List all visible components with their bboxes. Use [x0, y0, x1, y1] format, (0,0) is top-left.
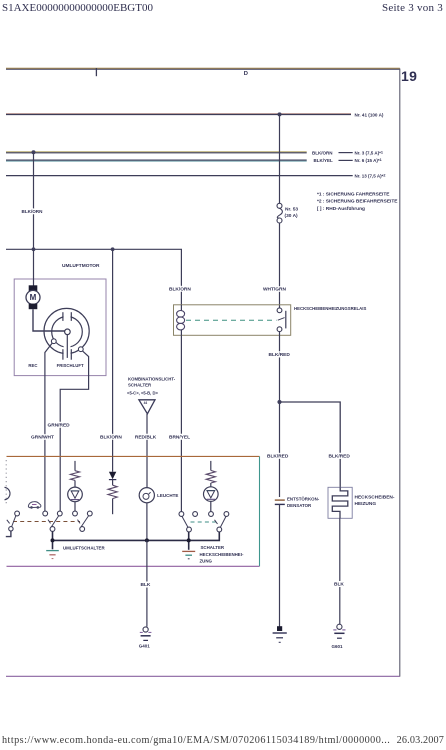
bus wire battery Nr.41: [6, 114, 351, 115]
ground capacitor bolt: [273, 626, 287, 642]
svg-text:BLK: BLK: [334, 581, 344, 587]
svg-text:(30 A): (30 A): [285, 213, 299, 219]
svg-text:BLK/RED: BLK/RED: [329, 453, 351, 459]
svg-text:BLK/RED: BLK/RED: [267, 453, 289, 459]
svg-text:UMLUFTMOTOR: UMLUFTMOTOR: [62, 263, 100, 269]
enclosure relay box: [174, 305, 291, 336]
frame right border: [399, 69, 401, 677]
junction BLK/RED branch: [277, 400, 281, 404]
LED indicator REC: [68, 487, 83, 511]
svg-text:HECKSCHEIBENHEI-: HECKSCHEIBENHEI-: [200, 552, 244, 557]
svg-text:DENSATOR: DENSATOR: [287, 503, 312, 508]
svg-text:KOMBINATIONSLICHT-: KOMBINATIONSLICHT-: [128, 377, 176, 382]
frame top border: [6, 68, 400, 69]
svg-text:HECKSCHEIBENHEIZUNGSRELAIS: HECKSCHEIBENHEIZUNGSRELAIS: [294, 306, 366, 311]
rotary damper selector: [44, 308, 89, 359]
relay contact armature: [277, 308, 286, 332]
capacitor ENTSTOERKONDENSATOR: [275, 500, 285, 504]
enclosure UMLUFTMOTOR box: [14, 279, 106, 376]
svg-text:HECKSCHEIBEN-: HECKSCHEIBEN-: [355, 495, 395, 501]
svg-text:<5-C>, <5-B, D>: <5-C>, <5-B, D>: [127, 391, 159, 396]
svg-text:*2 : SICHERUNG BEIFAHRERSEITE: *2 : SICHERUNG BEIFAHRERSEITE: [317, 199, 398, 205]
wire BLK/ORN bus2 down to feeder: [33, 152, 35, 249]
junction link bus lamp: [145, 538, 149, 542]
lamp partial at left border: [5, 487, 11, 500]
svg-text:19: 19: [401, 68, 417, 84]
svg-text:RED/BLK: RED/BLK: [135, 434, 157, 440]
svg-text:ZUNG: ZUNG: [200, 558, 213, 563]
svg-text:SCHALTER: SCHALTER: [201, 545, 225, 550]
wire BLK/RED branch to heater: [280, 402, 341, 487]
svg-text:ENTSTÖRKON-: ENTSTÖRKON-: [287, 496, 320, 501]
wire GRN/WHT motor to switch: [45, 343, 52, 511]
svg-text:*1 : SICHERUNG FAHRERSEITE: *1 : SICHERUNG FAHRERSEITE: [317, 192, 390, 198]
wire bus to motor M: [33, 249, 35, 285]
grid tick: [95, 68, 97, 76]
junction bus2 to motor feed: [32, 150, 36, 154]
frame bottom border: [6, 675, 400, 677]
svg-text:Nr. 41 (100 A): Nr. 41 (100 A): [355, 112, 384, 117]
resistor diode branch: [108, 485, 117, 514]
wire motor to damper hub: [33, 309, 65, 331]
svg-text:Nr. 13 (7,5 A)*2: Nr. 13 (7,5 A)*2: [355, 173, 386, 178]
svg-text:GRN/WHT: GRN/WHT: [31, 434, 54, 440]
fuse Nr.53: [277, 203, 282, 223]
junction feeder to motor: [32, 247, 36, 251]
wire switch link bus: [53, 531, 220, 549]
wire RED/BLK connector to lamp: [146, 414, 148, 488]
svg-text:HEIZUNG: HEIZUNG: [355, 501, 377, 507]
switch heater levers: [182, 516, 226, 527]
label KOMBINATIONSLICHTSCHALTER: [127, 377, 176, 396]
header document code: [2, 2, 153, 14]
svg-text:D: D: [244, 71, 248, 77]
svg-text:LEUCHTE: LEUCHTE: [157, 493, 178, 498]
bulb LEUCHTE: [139, 488, 154, 539]
junction link bus left: [51, 538, 55, 542]
svg-text:G601: G601: [332, 644, 344, 649]
linkage dashes UMLUFT: [13, 520, 80, 524]
diode branch: [109, 456, 116, 485]
svg-text:SCHALTER: SCHALTER: [128, 382, 152, 387]
LED indicator heater: [204, 487, 219, 512]
connector triangle to diagram 5: [139, 400, 155, 414]
heater element HECKSCHEIBENHEIZUNG: [332, 487, 348, 518]
ground G401: [140, 627, 152, 641]
junction feeder to diode branch: [111, 247, 115, 251]
bus wire Nr.13: [6, 175, 353, 177]
switch UMLUFT contacts: [43, 511, 92, 531]
bus wire BLK/ORN horizontal feeder: [6, 249, 181, 304]
chassis ground heater switch: [182, 551, 195, 558]
label SCHALTER HECKSCHEIBENHEIZUNG: [200, 545, 244, 563]
header page count: [382, 2, 443, 14]
enclosure heater grid box: [328, 487, 352, 518]
linkage dashes heater switch: [191, 520, 218, 524]
enclosure switch assembly box: [6, 456, 259, 566]
svg-text:REC: REC: [28, 363, 37, 368]
svg-text:BLK/ORN: BLK/ORN: [169, 287, 191, 293]
svg-text:M: M: [30, 293, 37, 302]
car icon: [28, 502, 41, 509]
svg-text:44: 44: [144, 401, 148, 405]
resistor LED1 feed: [70, 461, 79, 487]
bus wire BLK/YEL Nr.6: [6, 160, 307, 161]
footer URL: [2, 735, 390, 746]
resistor LED2 feed: [206, 461, 215, 487]
chassis ground umluft switch: [46, 551, 59, 559]
junction link bus right: [187, 538, 191, 542]
label HECKSCHEIBENHEIZUNG: [355, 495, 395, 508]
legend note fuses: [317, 192, 398, 212]
label fuse Nr.53: [285, 206, 299, 219]
contact FRISCHLUFT: [78, 347, 83, 352]
wire capacitor to ground: [279, 504, 281, 627]
switch heater contacts: [179, 512, 229, 532]
wire BLK lamp to ground: [146, 540, 148, 626]
label ENTSTOERKONDENSATOR: [287, 496, 320, 508]
svg-text:BLK/ORN: BLK/ORN: [22, 209, 44, 214]
svg-text:FRISCHLUFT: FRISCHLUFT: [57, 363, 84, 368]
svg-text:BLK/YEL: BLK/YEL: [314, 158, 334, 163]
switch left partial: [6, 511, 20, 536]
svg-text:BLK/ORN: BLK/ORN: [312, 150, 333, 155]
svg-text:BLK/ORN: BLK/ORN: [100, 434, 122, 440]
wire BLK heater to ground: [339, 518, 341, 624]
wire BLK/RED relay output: [279, 332, 281, 497]
svg-text:BLK/RED: BLK/RED: [269, 352, 291, 358]
junction bus1 to fuse 53: [278, 112, 282, 116]
svg-text:UMLUFTSCHALTER: UMLUFTSCHALTER: [63, 545, 105, 550]
wire fuse53 feed: [279, 114, 281, 203]
fuse ref line Nr.3: [339, 152, 353, 154]
footer date: [397, 735, 444, 746]
svg-text:G401: G401: [139, 643, 151, 648]
motor M1 blower: [26, 285, 40, 309]
svg-text:BLK: BLK: [141, 582, 151, 588]
ground G601: [333, 624, 345, 638]
wire GRN/RED motor to switch: [60, 351, 88, 511]
svg-text:Nr. 3 (7,5 A)*1: Nr. 3 (7,5 A)*1: [355, 150, 383, 155]
svg-text:WHT/GRN: WHT/GRN: [263, 287, 286, 293]
svg-text:BRN/YEL: BRN/YEL: [169, 434, 190, 440]
wire WHT/GRN fuse to relay: [279, 223, 281, 308]
svg-text:[ ] : RHD-Ausführung: [ ] : RHD-Ausführung: [317, 206, 365, 212]
svg-text:Nr. 53: Nr. 53: [285, 206, 298, 212]
contact REC: [51, 339, 56, 344]
svg-text:GRN/RED: GRN/RED: [48, 423, 71, 429]
relay coil: [177, 305, 185, 336]
svg-text:Nr. 6 (15 A)*1: Nr. 6 (15 A)*1: [355, 158, 382, 163]
relay linkage dashed: [186, 319, 277, 321]
wire BLK/ORN diode branch: [112, 249, 114, 456]
fuse ref line Nr.6: [339, 159, 353, 161]
wire BRN/YEL coil to switch: [180, 335, 182, 511]
switch UMLUFT levers: [51, 516, 88, 527]
bus wire BLK/ORN Nr.3: [6, 152, 307, 153]
